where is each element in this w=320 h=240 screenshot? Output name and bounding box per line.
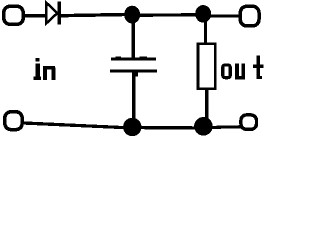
wire: node B to top-right terminal	[209, 15, 241, 18]
wire: bottom-left terminal to node C (slightly sloped)	[23, 121, 127, 129]
terminal: top-left input	[4, 6, 23, 24]
n right stem	[51, 68, 55, 81]
o ring	[223, 65, 230, 78]
t foot	[259, 76, 262, 79]
t stem	[257, 56, 261, 79]
wire: node A to node B (top rail)	[132, 13, 203, 17]
u bowl bottom	[235, 76, 245, 80]
resistor R1 (IEC box style, shunt load)	[198, 44, 215, 89]
n arch	[43, 66, 55, 70]
node B: junction of top rail, resistor, output	[195, 5, 211, 23]
terminal: top-right output	[240, 6, 259, 26]
u right stem	[241, 63, 245, 79]
wire: top-left terminal to diode anode	[24, 14, 48, 18]
node A: junction of diode, capacitor, top rail	[124, 6, 140, 24]
wire: node B down to resistor top	[204, 19, 207, 44]
wire: diode cathode to node A	[61, 13, 126, 18]
node D: junction of resistor and bottom rail	[194, 117, 213, 136]
terminal: bottom-right output return	[241, 115, 257, 129]
i stem	[36, 63, 40, 79]
node C: junction of capacitor and bottom rail	[123, 118, 141, 136]
n left stem	[43, 66, 47, 80]
wire: resistor bottom down to node D	[205, 89, 208, 119]
terminal: bottom-left input return	[5, 112, 22, 130]
label "in" (input net name)	[34, 58, 56, 80]
wire: capacitor bottom plate down to node C	[132, 72, 136, 121]
capacitor C1 (shunt, between top and bottom rails)	[110, 57, 157, 77]
wire: node C to node D (bottom rail)	[132, 126, 203, 130]
u left stem	[235, 63, 239, 76]
wire: node A down to capacitor top plate	[131, 19, 135, 59]
wire: node D to bottom-right terminal	[210, 125, 241, 129]
label "out" (output net name)	[223, 56, 264, 80]
t crossbar	[253, 65, 264, 68]
diode D1 (series element, anode left, cathode bar right)	[46, 2, 61, 25]
i dot	[35, 58, 39, 62]
i base serif	[34, 77, 41, 80]
